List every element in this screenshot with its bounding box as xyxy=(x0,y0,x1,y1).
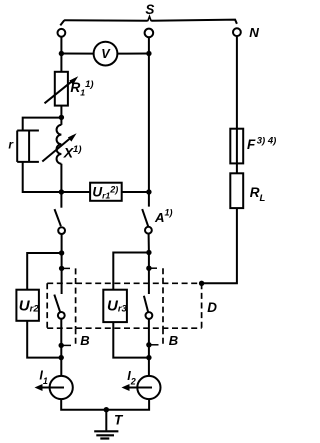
svg-text:D: D xyxy=(207,300,217,315)
svg-text:S: S xyxy=(145,2,154,17)
svg-text:B: B xyxy=(80,333,89,348)
svg-text:N: N xyxy=(249,25,259,40)
svg-text:B: B xyxy=(169,333,178,348)
